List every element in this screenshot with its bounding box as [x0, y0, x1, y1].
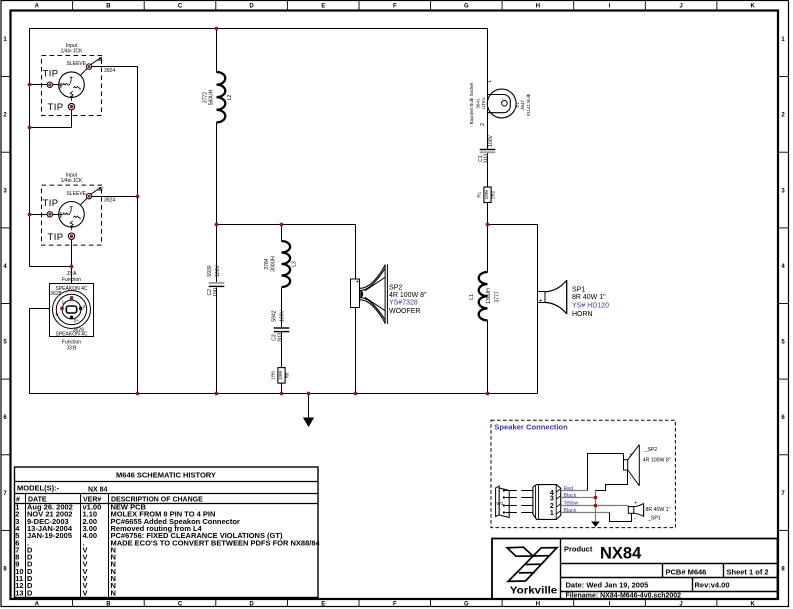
svg-text:R1: R1 [477, 191, 482, 197]
inductor L2 [202, 72, 233, 122]
svg-text:4R 100W 8": 4R 100W 8" [643, 457, 671, 463]
svg-text:100V: 100V [280, 310, 286, 322]
wire J2 tip stub [30, 214, 48, 216]
svg-text:Black: Black [564, 508, 577, 514]
svg-text:Product: Product [564, 544, 593, 553]
svg-text:SLEEVE: SLEEVE [67, 61, 87, 67]
wire mid right horizontal [488, 224, 538, 226]
svg-text:J: J [679, 602, 682, 608]
svg-text:3777: 3777 [494, 291, 500, 302]
junction dots in connection box [594, 496, 598, 500]
svg-text:E: E [321, 4, 325, 10]
svg-text:L2: L2 [227, 95, 233, 101]
svg-text:1: 1 [487, 80, 493, 83]
svg-text:13: 13 [15, 588, 23, 597]
svg-text:A: A [35, 4, 40, 10]
wire SP2 plus path [588, 454, 624, 491]
svg-text:Rev:v4.00: Rev:v4.00 [695, 580, 730, 589]
capacitor C1 [478, 135, 495, 164]
svg-text:WOOFER: WOOFER [389, 308, 421, 315]
svg-text:8R 40W 1": 8R 40W 1" [572, 294, 606, 301]
svg-text:3U3: 3U3 [278, 333, 284, 342]
svg-text:TIP: TIP [43, 68, 59, 79]
svg-text:3924: 3924 [104, 68, 115, 74]
title block [492, 539, 778, 600]
svg-text:100V: 100V [215, 265, 221, 277]
svg-text:2R2: 2R2 [490, 190, 495, 199]
wire L2 top [216, 29, 218, 73]
svg-text:E: E [321, 602, 325, 608]
svg-text:Yorkville: Yorkville [510, 585, 558, 597]
svg-text:4R 100W 8": 4R 100W 8" [389, 292, 427, 299]
svg-text:J3:B: J3:B [66, 346, 77, 352]
input jack J2 [42, 173, 116, 246]
resistor R1 [477, 187, 496, 203]
yorkville logo [507, 547, 557, 596]
svg-text:3U3: 3U3 [484, 154, 490, 163]
svg-text:10W: 10W [278, 370, 283, 380]
svg-text:Yellow: Yellow [564, 500, 579, 506]
svg-text:+: + [356, 279, 360, 285]
svg-text:1-: 1- [55, 311, 60, 316]
wire bottom ground bus [30, 393, 538, 395]
svg-text:_SP2: _SP2 [644, 447, 658, 453]
svg-text:LITE1: LITE1 [481, 97, 486, 110]
svg-text:G: G [464, 4, 469, 10]
svg-text:YS#7328: YS#7328 [389, 300, 418, 307]
resistor R8 [271, 368, 290, 384]
svg-text:2: 2 [550, 503, 554, 510]
wire top bus [30, 28, 488, 30]
svg-text:1/4in JCK: 1/4in JCK [61, 178, 83, 184]
wire left vertical [29, 29, 31, 267]
wire L1 to bus [487, 321, 489, 394]
svg-text:130UH: 130UH [486, 288, 492, 304]
svg-text:#1141 Bulb: #1141 Bulb [526, 93, 531, 116]
svg-text:A: A [35, 602, 40, 608]
ground symbol main [303, 418, 314, 428]
wire SP1 minus staircase [610, 513, 632, 522]
svg-text:2-: 2- [83, 304, 88, 309]
svg-text:Function: Function [62, 339, 81, 345]
ground in connection box [591, 522, 600, 528]
wire J1 sleeve to right [92, 66, 138, 68]
svg-text:F: F [393, 602, 397, 608]
wire J2 tip to Speakon pin [71, 239, 73, 297]
wire J2 tip into jack [53, 214, 60, 216]
svg-text:YS# HD120: YS# HD120 [572, 303, 609, 310]
svg-text:B: B [106, 4, 111, 10]
svg-text:H: H [536, 4, 540, 10]
svg-text:L1: L1 [469, 294, 475, 300]
wire C2 to bus [216, 288, 218, 394]
svg-text:_SP1: _SP1 [647, 516, 661, 522]
svg-text:1/4in JCK: 1/4in JCK [61, 49, 83, 55]
mini speaker SP2 [624, 445, 671, 486]
bayonet bulb LITE1 / B1 [469, 80, 531, 126]
svg-text:F: F [393, 4, 397, 10]
svg-text:+: + [630, 452, 633, 458]
speaker connection detail box [491, 420, 675, 527]
svg-text:SLEEVE: SLEEVE [67, 191, 87, 197]
svg-text:TIP: TIP [48, 232, 64, 243]
svg-text:NX84: NX84 [600, 545, 642, 563]
svg-text:L3: L3 [291, 261, 297, 267]
wire J1 tip down [71, 110, 73, 128]
svg-text:3: 3 [550, 495, 554, 502]
wire L3 to C3 [281, 288, 283, 328]
wire lamp branch [487, 29, 489, 150]
connector W1 [496, 486, 510, 517]
svg-text:NX 84: NX 84 [88, 487, 108, 494]
capacitor C2 [207, 265, 224, 297]
svg-text:Sheet 1 of 2: Sheet 1 of 2 [727, 568, 769, 577]
svg-text:JAN-19-2005: JAN-19-2005 [27, 531, 72, 540]
wire left to J2 ground junction [30, 266, 72, 268]
schematic history table [14, 467, 321, 598]
svg-text:5930: 5930 [207, 265, 213, 276]
svg-text:Black: Black [564, 493, 577, 499]
svg-text:2+: 2+ [74, 318, 80, 323]
svg-text:B: B [106, 602, 111, 608]
svg-text:G: G [464, 602, 469, 608]
svg-text:Filename: NX84-M646-4v0.sch20: Filename: NX84-M646-4v0.sch2002 [566, 593, 682, 600]
molex connector block [533, 485, 561, 520]
svg-text:J1: J1 [98, 57, 104, 63]
svg-text:Function: Function [62, 277, 81, 283]
svg-text:J: J [679, 4, 682, 10]
wire J1 tip stub [30, 84, 48, 86]
wire J1 ground to left [30, 127, 72, 129]
svg-text:100V: 100V [488, 135, 494, 147]
svg-text:1+: 1+ [62, 299, 68, 304]
svg-text:SP1: SP1 [572, 287, 585, 294]
inductor L1 [469, 272, 501, 320]
svg-text:10U: 10U [213, 287, 219, 297]
svg-text:W1: W1 [497, 501, 504, 506]
svg-text:1R8: 1R8 [271, 371, 276, 380]
svg-text:C: C [178, 602, 183, 608]
wire junction dots [215, 27, 219, 31]
mini speaker SP1 [628, 501, 670, 522]
wire L2 to C2 [216, 123, 218, 283]
svg-text:+: + [634, 501, 637, 507]
svg-text:1: 1 [550, 510, 554, 517]
svg-text:D: D [249, 4, 254, 10]
svg-text:TIP: TIP [48, 102, 64, 113]
svg-text:Speaker Connection: Speaker Connection [494, 422, 568, 431]
wire C3 to bus [281, 333, 283, 394]
svg-text:3641: 3641 [475, 98, 480, 109]
wire J2 sleeve to right [92, 196, 138, 198]
wire Speakon down left [29, 309, 31, 394]
gray harness wires [561, 490, 588, 492]
wire SP2 minus staircase [596, 470, 628, 491]
svg-text:M646 SCHEMATIC HISTORY: M646 SCHEMATIC HISTORY [116, 471, 216, 480]
svg-text:J2: J2 [98, 187, 104, 193]
wire C1 to L1 [487, 153, 489, 273]
svg-text:Red: Red [564, 486, 574, 492]
svg-text:HORN: HORN [572, 311, 593, 318]
svg-text:560UH: 560UH [208, 89, 214, 105]
svg-text:3647: 3647 [520, 99, 525, 110]
wire J1 tip into jack [53, 84, 60, 86]
svg-text:Bayonet Bulb Socket: Bayonet Bulb Socket [469, 82, 474, 125]
svg-text:SP2: SP2 [389, 284, 402, 291]
svg-text:B1: B1 [514, 102, 519, 108]
speakon connector J3 [50, 271, 94, 352]
svg-text:V: V [83, 588, 88, 597]
svg-text:3784: 3784 [264, 258, 270, 269]
wire SP2 to bus [355, 308, 357, 394]
svg-text:K: K [751, 602, 756, 608]
wire Speakon left pin out [30, 308, 61, 310]
svg-text:PCB# M646: PCB# M646 [666, 568, 707, 577]
svg-text:D: D [27, 588, 33, 597]
svg-text:D: D [249, 602, 254, 608]
wire L3 branch top [281, 225, 283, 242]
svg-text:8R 40W 1": 8R 40W 1" [646, 507, 671, 513]
svg-text:SPEAKON 4C: SPEAKON 4C [56, 332, 88, 338]
svg-text:2: 2 [480, 123, 486, 126]
wire mid horizontal [217, 224, 356, 226]
frame column labels top/bottom [72, 1, 74, 10]
speaker SP1 horn [538, 280, 610, 318]
svg-text:TIP: TIP [43, 198, 59, 209]
cable wires W1 to molex [505, 490, 517, 492]
svg-text:3924: 3924 [104, 197, 115, 203]
svg-text:+: + [539, 299, 543, 305]
svg-text:300UH: 300UH [270, 256, 276, 272]
svg-text:C: C [178, 4, 183, 10]
wire ground stem [308, 394, 310, 418]
svg-text:R8: R8 [284, 372, 289, 378]
svg-text:Date: Wed Jan 19, 2005: Date: Wed Jan 19, 2005 [566, 580, 649, 589]
wire right of jacks vertical [137, 67, 139, 394]
capacitor C3 [272, 310, 290, 343]
wire SP2 branch down [355, 225, 357, 280]
svg-text:H: H [536, 602, 540, 608]
svg-text:K: K [751, 4, 756, 10]
svg-text:4.00: 4.00 [83, 531, 98, 540]
frame row labels left/right [1, 76, 10, 78]
svg-text:5942: 5942 [272, 310, 278, 321]
speaker SP2 woofer [351, 264, 428, 324]
svg-text:MADE ECO'S TO CONVERT BETWEEN: MADE ECO'S TO CONVERT BETWEEN PDFS FOR N… [111, 538, 321, 547]
svg-text:N: N [111, 588, 116, 597]
svg-text:10W: 10W [484, 189, 489, 199]
wire SP1 branch [537, 225, 539, 394]
svg-text:MODEL(S):-: MODEL(S):- [17, 483, 60, 492]
input jack J1 [42, 43, 116, 116]
inductor L3 [264, 241, 297, 287]
